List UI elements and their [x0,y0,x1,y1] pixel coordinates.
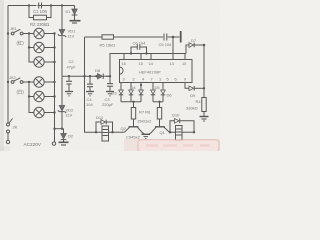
lamp right rail [54,34,56,142]
diode matrix d2 [129,83,134,102]
diode D3 [119,83,124,102]
supply rail horizontal [62,75,110,77]
resistor R2 [29,6,51,20]
ground under C3 [106,92,114,96]
capacitor C5 [164,34,167,41]
ground under C2 [65,92,73,96]
lamp L6 [34,107,55,117]
wire pin to D9 [185,83,189,89]
resistor R4 [202,88,206,116]
ground under R4 [200,117,209,122]
wire top horizontal [8,5,75,7]
zener VD1 [58,30,66,38]
node C6 left [130,52,132,54]
AC plug right terminal [52,142,55,145]
ground under C4 [86,92,94,96]
lamp L1 [29,28,55,38]
pin 16 [122,54,126,67]
IC U1 HEF4017BP [120,60,193,83]
node relay2 right [193,131,195,133]
node R4 top [203,87,205,89]
capacitor C6 loop [131,44,147,53]
ground under D1 [70,21,81,23]
relay J1 coil box [96,126,113,141]
node C6 right [145,52,147,54]
wire pin10 to D7 [186,45,189,54]
node C1 left [28,4,30,6]
touch plate electrode [180,31,182,43]
node rail D8 anode [95,75,97,77]
node link left [53,128,55,130]
node rail feed [83,75,85,77]
oscillator wire R5 row [85,36,180,38]
node join A [132,101,134,103]
pin 13 clock riser [170,37,174,66]
diode D2 [61,129,67,142]
diode D1 [72,6,78,21]
node right rail r6 [53,111,55,113]
node top at VD1 branch [61,4,63,6]
node link zener [61,128,63,130]
matrix join wire A [121,101,141,103]
wire Q2 collector to relay1 [113,131,125,133]
diode D11 [96,120,113,133]
node right rail r4 [53,81,55,83]
lamp L3 [34,57,55,67]
node D4 top [140,84,142,86]
wire Q1 collector to relay2 [170,131,176,133]
ground emitters [142,134,151,138]
diode matrix d5 [161,83,166,102]
node relay1 right [111,131,113,133]
resistor R7 [131,102,135,127]
switch JK2 [11,78,29,84]
wire left vertical rail [7,6,9,124]
capacitor C3 electrolytic [107,76,113,91]
node right rail r5 [53,95,55,97]
node right rail r1 [53,32,55,34]
lamp rail left group1 [29,34,34,63]
diode D8 [98,74,111,80]
diode D10 [170,119,194,133]
resistor R6 [157,102,161,127]
lamp L2 [29,42,55,52]
node lamp2 left [28,46,30,48]
wire right column [203,45,205,88]
switch 2K power [6,119,12,144]
wire VD1 vertical [61,6,63,77]
diode matrix d3 [139,83,144,102]
node JK1 left [7,32,9,34]
node relay2 left [169,131,171,133]
node lamp1 left [28,32,30,34]
long feed vertical wire [85,37,97,132]
node lamp5 left [28,95,30,97]
node relay1 left [95,131,97,133]
lamp L4 [29,77,55,87]
diode D7 [189,43,204,48]
node D7 out [203,44,206,47]
lamp L5 [29,91,55,101]
matrix join wire B [153,101,163,103]
node rail C2 [68,75,70,77]
transistor Q2 [125,127,145,134]
pin 14 [149,54,154,67]
pink watermark band [124,139,220,152]
capacitor C2 electrolytic [66,76,72,91]
node clock [172,36,175,39]
Vdd riser wire [110,54,186,77]
diode D9 [189,86,204,91]
relay J2 coil box [176,126,195,141]
node rail C4 [89,75,91,77]
diode matrix d4 [151,83,156,102]
node join B [158,101,160,103]
pin 15 [139,54,143,67]
node lamp4 left [28,81,30,83]
node C1 right [50,4,52,6]
node right rail r2 [53,46,55,48]
capacitor C4 [87,76,93,91]
node rail D8 cathode [109,75,111,77]
bottom link wire [55,128,64,130]
pin 10 [182,54,187,67]
capacitor C1 [8,3,73,9]
transistor Q1 [149,127,170,135]
ground under D2 [59,142,69,145]
zener VD2 [58,76,66,129]
switch JK1 [11,29,29,35]
lamp rail left group2 [29,82,34,113]
node JK2 left [7,81,9,83]
node right rail r3 [53,61,55,63]
resistor R5 [102,35,114,39]
